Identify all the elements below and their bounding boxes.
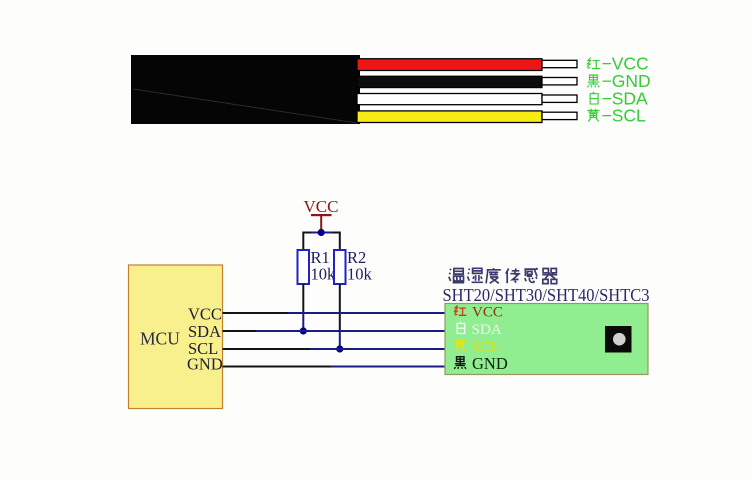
wire yellow tip (crimp) xyxy=(542,112,577,119)
wire net SDA (MCU to sensor) xyxy=(223,330,446,332)
svg-text:SCL: SCL xyxy=(472,338,500,355)
wire: VCC rail top (node to resistor branches) xyxy=(303,232,340,251)
svg-text:VCC: VCC xyxy=(472,304,503,320)
wire net GND (MCU to sensor) xyxy=(223,366,446,368)
label 白-SDA xyxy=(590,88,648,108)
text 温湿度传感器 (sensor title) xyxy=(449,268,558,284)
junction: R1/SDA xyxy=(300,327,307,334)
svg-text:10k: 10k xyxy=(311,265,337,284)
wire white tip (crimp) xyxy=(542,95,577,102)
svg-text:MCU: MCU xyxy=(140,328,180,348)
cable sheath (black) xyxy=(131,55,360,124)
wire: R2 bottom to SCL net xyxy=(339,284,341,349)
power symbol VCC xyxy=(304,197,339,232)
resistor R2 xyxy=(334,248,373,284)
wire net SCL (MCU to sensor) xyxy=(223,348,446,350)
svg-text:SHT20/SHT30/SHT40/SHTC3: SHT20/SHT30/SHT40/SHTC3 xyxy=(443,285,650,305)
resistor R1 xyxy=(298,248,337,284)
wire: R1 bottom to SDA net xyxy=(302,284,304,331)
wire red (cable lead) xyxy=(357,59,542,71)
svg-text:10k: 10k xyxy=(347,265,373,284)
sensor pin 红 VCC xyxy=(454,304,503,320)
svg-text:VCC: VCC xyxy=(304,197,339,216)
svg-text:VCC: VCC xyxy=(188,304,222,323)
junction node (VCC rail) xyxy=(318,229,325,236)
svg-text:GND: GND xyxy=(187,355,223,374)
wire black tip (crimp) xyxy=(542,78,577,85)
sensor pin 白 SDA xyxy=(457,321,502,338)
svg-text:GND: GND xyxy=(472,354,508,373)
sensor chip (black square with window) xyxy=(605,326,632,353)
wire net VCC (MCU to sensor) xyxy=(223,312,446,314)
junction: R2/SCL xyxy=(336,345,343,352)
wire white (cable lead) xyxy=(357,94,542,105)
label 黄-SCL xyxy=(587,105,646,125)
label 红-VCC xyxy=(587,54,649,74)
label 黑-GND xyxy=(588,71,651,91)
sensor pin 黄 SCL xyxy=(454,338,499,355)
wire yellow (cable lead) xyxy=(357,111,542,123)
MCU U1 (yellow block) xyxy=(129,265,223,409)
sensor module U2 (green block) xyxy=(445,304,648,375)
wire black (cable lead) xyxy=(357,76,542,87)
svg-text:−SCL: −SCL xyxy=(602,105,647,125)
wire red tip (crimp) xyxy=(542,60,577,67)
sensor pin 黑 GND xyxy=(454,354,507,373)
svg-text:SDA: SDA xyxy=(472,321,502,338)
